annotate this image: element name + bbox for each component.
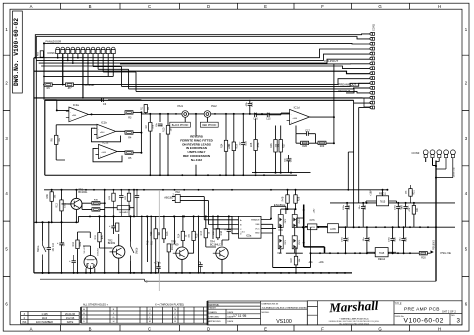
- wire fan/door top run: [44, 42, 371, 45]
- svg-text:BF469: BF469: [171, 244, 179, 247]
- resistor R18: [213, 229, 223, 238]
- switch SW1b: [131, 242, 135, 262]
- transistor TR3: [171, 241, 188, 260]
- svg-text:C13: C13: [244, 141, 247, 146]
- resistor R28: [294, 195, 301, 203]
- transistor TR4: [210, 241, 228, 260]
- resistor R3: [125, 111, 133, 114]
- svg-text:MATERIAL: MATERIAL: [209, 303, 221, 306]
- rail left lower: [34, 221, 79, 223]
- arrow to PSU-VE: [431, 250, 434, 253]
- svg-text:R20: R20: [421, 257, 426, 260]
- svg-text:D: D: [207, 326, 210, 331]
- thick lead from CON6 pin 6: [82, 54, 84, 98]
- resistor R4: [125, 131, 133, 134]
- resistor R10: [163, 126, 173, 135]
- revision table text: [22, 313, 75, 324]
- wire psu caps lower: [346, 227, 404, 253]
- holes table thick left edge: [80, 307, 82, 323]
- resistor R2: [145, 123, 155, 132]
- junction dots phono rail texture: [175, 113, 270, 115]
- svg-text:+18v: +18v: [319, 261, 325, 264]
- opto-fet IS1: [292, 236, 301, 249]
- capacitor C15: [267, 113, 269, 117]
- svg-text:C19: C19: [348, 205, 351, 210]
- op-amp IC1d: [287, 106, 310, 125]
- thick lead from CON6 pin 2: [62, 54, 64, 85]
- svg-text:F: F: [321, 4, 324, 9]
- svg-text:17 11 95: 17 11 95: [233, 314, 246, 318]
- wire IC5a loop: [273, 233, 311, 268]
- revision table lines: [21, 312, 80, 324]
- junction at FAN&DOOR: [43, 42, 45, 44]
- rail psu mid: [330, 202, 455, 204]
- svg-text:C22: C22: [394, 237, 397, 242]
- svg-text:SHT 2 OF 2: SHT 2 OF 2: [442, 310, 456, 314]
- capacitor C3: [102, 98, 104, 102]
- resistor R25: [250, 140, 260, 151]
- svg-text:R11: R11: [94, 234, 97, 239]
- svg-text:R1B: R1B: [236, 144, 239, 149]
- wire enable row: [281, 209, 296, 214]
- wire C17 loop: [296, 126, 316, 144]
- capacitor C22: [390, 239, 394, 241]
- resistor ZD1: [167, 244, 174, 252]
- svg-text:BLACK PHONO: BLACK PHONO: [172, 124, 189, 127]
- wire FXLPOUT line: [120, 63, 371, 65]
- holes table columns: [87, 307, 204, 323]
- junction op-amp input: [56, 109, 58, 111]
- junctions psu rail 2: [302, 226, 437, 228]
- wire input net verticals: [146, 104, 168, 125]
- capacitor C25: [156, 267, 160, 269]
- svg-text:CHECKED: CHECKED: [209, 316, 220, 318]
- rail mid band top: [44, 189, 388, 191]
- fold crease line: [158, 190, 160, 291]
- resistor R9: [44, 83, 52, 90]
- rail mid band inner: [79, 216, 233, 222]
- svg-text:R31: R31: [416, 207, 419, 212]
- capacitor C18: [286, 159, 290, 161]
- wire bus line 10 thick: [45, 99, 354, 101]
- svg-text:DWG.No. V100-60-02: DWG.No. V100-60-02: [13, 18, 20, 86]
- svg-text:Marshall: Marshall: [328, 298, 379, 316]
- svg-text:VEE: VEE: [255, 224, 260, 226]
- switch SW1a: [43, 241, 47, 261]
- wire psu left column: [297, 218, 311, 253]
- wire bus line 4b: [44, 67, 136, 92]
- middle table tiny labels: [209, 303, 308, 323]
- resistor R27: [276, 140, 286, 153]
- wire bus line 9 thick: [34, 97, 371, 99]
- wire IC5a right pins: [261, 224, 276, 233]
- svg-text:C24: C24: [63, 241, 66, 246]
- junction enable node: [270, 208, 287, 228]
- svg-text:R25: R25: [250, 142, 253, 147]
- svg-text:A: A: [30, 326, 33, 331]
- wire opamp in: [57, 100, 69, 111]
- resistor R36: [92, 202, 100, 205]
- junction dots bottom rail texture: [42, 272, 346, 274]
- holes table letters: [83, 308, 176, 323]
- svg-text:B: B: [89, 326, 92, 331]
- svg-text:ENABLE: ENABLE: [251, 218, 260, 221]
- svg-text:R28: R28: [298, 196, 301, 201]
- resistor R26: [270, 140, 280, 153]
- junctions TR4 row: [205, 215, 230, 274]
- svg-text:H: H: [438, 326, 441, 331]
- capacitor C1: [158, 124, 162, 126]
- svg-text:OP1: OP1: [285, 239, 287, 244]
- node column right of opamps: [140, 112, 142, 152]
- junction R28: [287, 189, 297, 210]
- holes table rows: [81, 311, 208, 319]
- wire to pin 15: [354, 100, 371, 152]
- junction C10: [42, 221, 50, 274]
- wire R21 leads: [410, 185, 412, 203]
- regulator REG1: [377, 191, 389, 206]
- op-amp IC1c: [96, 141, 118, 159]
- resistor R2B: [301, 141, 309, 148]
- svg-text:ECC83: ECC83: [97, 248, 99, 256]
- svg-text:R14: R14: [177, 233, 180, 238]
- wire PREAMPOUT line: [350, 83, 371, 86]
- svg-text:E: E: [264, 326, 267, 331]
- svg-text:C: C: [148, 4, 151, 9]
- svg-text:R26: R26: [270, 143, 273, 148]
- ic box IC7b: [308, 219, 317, 230]
- Marshall logo script: [328, 298, 379, 316]
- svg-text:C20: C20: [368, 237, 371, 242]
- regulator REG2: [375, 248, 388, 262]
- svg-text:1M: 1M: [148, 107, 150, 110]
- capacitor C4: [111, 226, 115, 228]
- svg-text:X = (THROUGH PLATED): X = (THROUGH PLATED): [155, 304, 184, 307]
- wire right drop B: [369, 102, 371, 104]
- wire right loop vertical thick: [435, 161, 437, 282]
- svg-text:100n: 100n: [342, 236, 344, 242]
- wire C31 leads: [73, 255, 75, 273]
- resistor R35: [127, 193, 130, 201]
- junction dots mid rail texture: [113, 215, 186, 217]
- wire R3 to node: [133, 111, 141, 113]
- svg-text:MODEL: MODEL: [262, 312, 271, 314]
- wire CON3 pin2 drop: [426, 158, 436, 166]
- svg-text:PSU&ND: PSU&ND: [433, 240, 436, 250]
- DWG number side box: [13, 11, 23, 93]
- capacitor C26: [198, 265, 202, 267]
- resistor R21: [406, 189, 416, 197]
- junction dots psu lower rail: [319, 252, 411, 254]
- svg-text:VCC: VCC: [255, 228, 260, 230]
- wire bus line 5 thick: [34, 71, 371, 74]
- wire R25-27 leads: [256, 119, 289, 173]
- wire bus line 7: [122, 83, 372, 86]
- resistor R1: [140, 105, 150, 113]
- svg-text:1:105: 1:105: [41, 313, 48, 316]
- svg-text:SW1b: SW1b: [137, 247, 139, 254]
- svg-text:C: C: [146, 280, 148, 284]
- svg-text:FINISH: FINISH: [209, 308, 217, 310]
- feedback loop IC1b: [92, 128, 121, 142]
- capacitor C23: [401, 239, 405, 241]
- svg-text:C23: C23: [405, 237, 408, 242]
- capacitor C19: [345, 207, 349, 209]
- svg-text:100n: 100n: [389, 236, 391, 242]
- heavy gnd bus: [304, 205, 325, 254]
- junction con3 drops: [435, 165, 437, 179]
- op-amp IC3a: [66, 103, 89, 122]
- wire C26 jog: [199, 262, 201, 273]
- svg-text:B: B: [89, 4, 92, 9]
- svg-text:E: E: [264, 4, 267, 9]
- resistor R12: [56, 200, 67, 211]
- svg-text:100SMD: 100SMD: [84, 83, 94, 87]
- svg-text:R4B: R4B: [282, 196, 285, 201]
- svg-text:CON3: CON3: [412, 151, 420, 155]
- wire C10 leads: [43, 222, 49, 273]
- wire phono gnd bus: [150, 131, 168, 175]
- junction dots lower opamp rail: [149, 174, 264, 176]
- svg-text:R16: R16: [72, 241, 75, 246]
- junctions psu rail 1: [346, 202, 415, 204]
- wire phono mid drop: [195, 114, 197, 175]
- svg-text:TITLE: TITLE: [395, 303, 402, 306]
- svg-text:C15: C15: [266, 117, 271, 120]
- svg-text:JP7: JP7: [67, 87, 72, 90]
- wire bus drop 1: [348, 152, 353, 190]
- capacitor C10: [47, 248, 51, 250]
- svg-text:VS100: VS100: [276, 319, 292, 325]
- resistor R50 beside CON6: [37, 51, 43, 57]
- svg-text:R17: R17: [200, 230, 203, 235]
- revision table outline: [21, 312, 80, 324]
- svg-text:SW1a: SW1a: [38, 245, 40, 252]
- svg-text:PRE AMP PCB: PRE AMP PCB: [404, 307, 440, 313]
- svg-text:BC184LC: BC184LC: [210, 244, 221, 247]
- border grid numbers left: [5, 27, 8, 307]
- svg-text:ISS: ISS: [451, 315, 455, 317]
- svg-text:DRAWN: DRAWN: [209, 311, 218, 314]
- svg-text:DATE: DATE: [228, 320, 234, 323]
- svg-text:R15: R15: [196, 233, 199, 238]
- wire C25 leads: [158, 262, 160, 273]
- junctions TR2 row: [99, 215, 157, 274]
- wire psu caps upper: [347, 203, 414, 227]
- wire IC1b out: [116, 131, 141, 132]
- wire left loop vertical A thick: [33, 58, 35, 273]
- title block divider marshall/title: [393, 301, 395, 325]
- wire PH2 stem: [206, 117, 208, 122]
- svg-text:C17: C17: [305, 129, 310, 133]
- svg-text:IC3a: IC3a: [73, 103, 79, 107]
- resistor R13: [159, 229, 169, 239]
- resistor R31: [409, 206, 419, 215]
- svg-text:R29: R29: [320, 145, 325, 148]
- svg-text:PH1: PH1: [178, 104, 184, 108]
- wire ic7 leads: [305, 225, 345, 228]
- wire R20 out: [427, 252, 430, 254]
- junction C14: [249, 113, 251, 115]
- svg-text:-18v: -18v: [308, 261, 313, 264]
- svg-text:100n: 100n: [394, 204, 396, 210]
- wire valve leads: [83, 246, 95, 273]
- cable label RED PHONO: [200, 122, 218, 127]
- middle table rows: [208, 301, 308, 325]
- wire IC5a pins left: [204, 216, 238, 233]
- svg-text:470R: 470R: [229, 143, 231, 149]
- title block left small cells: [307, 301, 317, 325]
- connector PA6: [175, 191, 180, 203]
- junction IC1d out: [290, 116, 335, 174]
- iss cell divider: [449, 314, 451, 325]
- svg-text:CON6: CON6: [47, 51, 55, 55]
- rail psu lower: [310, 252, 419, 254]
- rail top of opamp section: [57, 99, 142, 101]
- svg-text:ISS: ISS: [22, 321, 26, 324]
- svg-text:TOLERANCE UNLESS OTHERWISE STA: TOLERANCE UNLESS OTHERWISE STATED: [262, 306, 308, 309]
- wire R6 leads: [56, 125, 97, 160]
- ic box IC7c: [328, 224, 339, 233]
- svg-text:GND: GND: [255, 233, 260, 235]
- svg-text:PH2: PH2: [211, 104, 217, 108]
- wire SW1b leads: [130, 216, 132, 273]
- capacitor C33: [135, 196, 139, 198]
- svg-text:R27: R27: [283, 143, 286, 148]
- rail mid phono section: [141, 113, 289, 115]
- wire right drop A: [364, 98, 371, 107]
- svg-text:OP2: OP2: [285, 218, 287, 223]
- capacitor C21: [343, 239, 347, 241]
- wire C15 to IC1d: [269, 113, 290, 115]
- svg-text:IC1b: IC1b: [101, 121, 107, 125]
- analog switch IC5a: [239, 216, 262, 238]
- svg-text:LF35: LF35: [330, 228, 336, 231]
- wire bus line 1: [34, 49, 371, 58]
- capacitor C10b: [396, 207, 400, 209]
- junctions psu rail 3: [310, 252, 405, 254]
- svg-text:Q: Q: [174, 317, 176, 319]
- resistor R15: [189, 231, 199, 240]
- junction IC3a out: [91, 113, 93, 115]
- capacitor C31: [72, 261, 76, 263]
- phono jack PH2: [204, 111, 211, 118]
- svg-text:REVOUT: REVOUT: [338, 89, 350, 93]
- wire CON3 pin5 drop: [436, 158, 453, 178]
- wire mid connections: [156, 216, 169, 273]
- svg-text:7815: 7815: [380, 200, 386, 203]
- border grid letters bottom: [30, 326, 441, 331]
- junction R19: [295, 272, 297, 274]
- svg-text:ECN NUMBER: ECN NUMBER: [36, 321, 53, 324]
- opto-fet OP1: [278, 236, 287, 249]
- wire left loop vertical B: [35, 60, 37, 222]
- svg-text:100SMD1: 100SMD1: [119, 212, 130, 214]
- resistor R5: [125, 151, 133, 154]
- capacitor C8: [227, 230, 231, 232]
- junction dots right rail texture: [310, 226, 429, 228]
- svg-text:C3: C3: [103, 102, 107, 106]
- svg-text:C14: C14: [251, 102, 254, 107]
- wire CON3 pin4 drop: [436, 158, 446, 169]
- wire top line 2: [36, 37, 371, 61]
- resistor R29: [318, 141, 326, 148]
- wire feedback row: [296, 134, 334, 144]
- wire TR1 leads: [62, 190, 77, 223]
- svg-text:R10: R10: [163, 127, 166, 132]
- wire left loop top: [45, 99, 57, 101]
- border grid numbers right: [465, 27, 468, 307]
- note reverb concession text: [180, 135, 213, 162]
- wire REVOUT line: [346, 88, 371, 93]
- svg-text:RED PHONO: RED PHONO: [202, 125, 216, 127]
- svg-text:3: 3: [457, 318, 461, 325]
- wire REG1 leads: [366, 190, 397, 203]
- svg-text:R13: R13: [166, 231, 169, 236]
- wire IC1c out: [118, 151, 142, 152]
- wire IC1d out: [310, 64, 334, 143]
- phono jack PH1: [182, 111, 189, 118]
- connector CON1 pins right edge: [370, 32, 375, 108]
- wire TR2 leads: [100, 216, 119, 273]
- wire bottom boundary: [40, 279, 436, 281]
- svg-text:C: C: [148, 326, 151, 331]
- resistor R4B: [282, 195, 289, 203]
- rail bottom main thick: [34, 272, 352, 274]
- svg-text:IC7b: IC7b: [310, 219, 316, 222]
- wire mid vertical 1: [104, 190, 106, 273]
- capacitor C16: [255, 113, 257, 117]
- cable label BLACK PHONO: [170, 122, 191, 127]
- transistor TR2: [108, 239, 125, 258]
- wire top line 1: [35, 34, 371, 58]
- title block outline: [307, 301, 462, 325]
- svg-text:R19: R19: [290, 258, 293, 263]
- junction heavy bus: [303, 209, 305, 244]
- resistor R17: [200, 229, 210, 238]
- svg-text:R2B: R2B: [302, 145, 307, 148]
- smd resistor box 100SMD1: [117, 206, 130, 215]
- svg-text:7915: 7915: [379, 252, 385, 255]
- wire R36 R40 row: [82, 203, 105, 209]
- wire mid vertical 2: [133, 190, 135, 217]
- wire mid crossing verticals: [142, 216, 213, 273]
- svg-text:M: M: [149, 321, 151, 323]
- svg-text:26-04-96: 26-04-96: [65, 313, 76, 316]
- title box divider: [394, 313, 462, 315]
- wire IC3a output: [89, 113, 126, 115]
- junctions mid band: [51, 189, 135, 224]
- junctions TR3 row: [181, 215, 195, 274]
- svg-text:G: G: [113, 317, 115, 319]
- resistor R38: [46, 192, 57, 202]
- opto-fet OP2: [278, 215, 287, 228]
- resistor R23: [150, 229, 160, 239]
- svg-text:PREAMPOUT: PREAMPOUT: [338, 82, 356, 86]
- capacitor C11: [403, 207, 407, 209]
- wire TR4 leads: [206, 216, 229, 273]
- capacitor C13a: [241, 143, 245, 145]
- resistor R32: [112, 193, 115, 201]
- svg-text:PSU&VE: PSU&VE: [452, 168, 455, 178]
- wire bus line 3: [39, 59, 371, 63]
- wire bus line 6: [44, 79, 371, 85]
- junction lower rail: [255, 172, 282, 174]
- svg-text:No.1112: No.1112: [191, 158, 203, 162]
- svg-text:25C1: 25C1: [299, 239, 301, 245]
- wire C14 leads: [249, 100, 251, 114]
- svg-text:R21: R21: [413, 190, 416, 195]
